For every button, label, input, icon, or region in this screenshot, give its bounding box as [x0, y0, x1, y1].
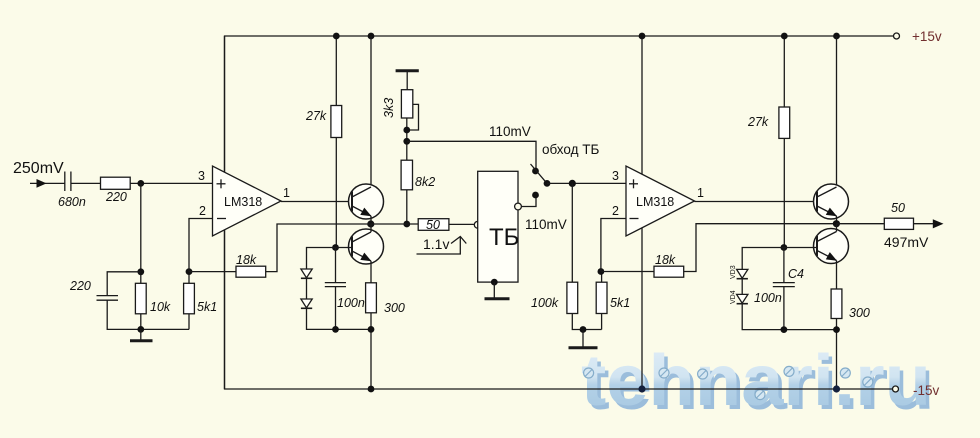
wire input shunt vertical	[140, 183, 142, 283]
wire op2 supply bottom	[641, 228, 643, 389]
svg-text:497mV: 497mV	[884, 234, 929, 250]
wire q4 base	[784, 247, 817, 249]
transistor Q1	[349, 184, 384, 219]
wire op2 pin2	[601, 219, 626, 272]
resistor R 27k first	[331, 106, 342, 138]
wire q4 collector to node	[836, 224, 838, 232]
svg-text:680n: 680n	[58, 195, 86, 209]
svg-text:tehnari.ru: tehnari.ru	[581, 341, 931, 421]
resistor R 300 second	[831, 289, 842, 319]
svg-text:27k: 27k	[305, 109, 327, 123]
svg-text:ТБ: ТБ	[489, 224, 519, 251]
wire 27k1 top	[335, 36, 337, 106]
svg-text:300: 300	[384, 301, 405, 315]
svg-text:+15v: +15v	[912, 29, 942, 44]
svg-text:-15v: -15v	[913, 383, 940, 398]
wire 27k1 bottom	[335, 138, 337, 248]
node junction input	[137, 180, 144, 187]
wire 18k1 left	[189, 271, 236, 273]
wire 5k1 bottom stub	[188, 314, 190, 330]
diode D2	[301, 299, 312, 308]
resistor R 50 output	[884, 218, 913, 229]
wire op2 pin3	[547, 182, 626, 184]
wire op2 supply top	[641, 36, 643, 174]
resistor R 220 series	[101, 177, 131, 189]
node junction rail bottom 2	[833, 385, 840, 392]
wire	[572, 314, 601, 330]
svg-text:VD4: VD4	[730, 290, 737, 304]
wire 27k2 top	[783, 36, 785, 107]
node junction C4 bottom	[781, 326, 788, 333]
svg-text:3: 3	[612, 169, 619, 183]
svg-text:100n: 100n	[754, 291, 782, 305]
wire	[130, 182, 212, 184]
ground gnd1	[130, 329, 153, 340]
wire output	[836, 223, 884, 225]
resistor R 50 first	[418, 219, 449, 231]
node junction op1 pin2	[186, 268, 193, 275]
wire op1 output	[281, 201, 352, 203]
node junction rail 27k1	[333, 33, 340, 40]
wire	[188, 272, 190, 284]
resistor R 5k1 second	[596, 282, 607, 313]
svg-text:LM318: LM318	[224, 195, 262, 209]
wire	[742, 304, 836, 330]
wire q2 emitter down	[370, 261, 372, 283]
svg-text:250mV: 250mV	[13, 160, 64, 177]
wire 100n top	[335, 248, 337, 283]
resistor R 100k	[567, 282, 578, 313]
resistor R 5k1 first	[184, 283, 195, 314]
node junction 3k3 wiper	[403, 127, 410, 134]
capacitor C 220 shunt	[97, 296, 119, 301]
diode VD4	[737, 294, 748, 303]
svg-text:1: 1	[697, 186, 704, 200]
resistor R 18k second	[654, 266, 684, 277]
wire	[449, 223, 474, 225]
wire -15v bottom rail	[225, 230, 893, 389]
node junction 110mV tap	[403, 138, 410, 145]
svg-text:5k1: 5k1	[197, 300, 217, 314]
resistor R 3k3 trimmer	[401, 90, 412, 118]
wire	[914, 223, 935, 225]
node junction emitters1	[367, 220, 374, 227]
node junction 300 bottom	[368, 326, 375, 333]
node junction rail 27k2	[781, 33, 788, 40]
wire 3k3 bottom	[406, 118, 408, 160]
wire diode chain 2	[742, 248, 784, 270]
wire q1 collector	[370, 36, 372, 187]
svg-text:110mV: 110mV	[489, 124, 531, 139]
wire q2 collector to node	[370, 224, 372, 232]
svg-text:100k: 100k	[531, 296, 559, 310]
wire TB out to switch	[521, 195, 536, 207]
wire op1 supply top	[224, 36, 226, 172]
svg-text:18k: 18k	[236, 253, 257, 267]
annotation 1.1v arrow	[417, 237, 467, 255]
wire diode chain 1	[307, 248, 336, 270]
resistor R 10k	[135, 283, 146, 314]
svg-text:300: 300	[849, 306, 870, 320]
wire +15v top rail	[225, 36, 894, 172]
wire 5k1 to pin2 node	[601, 272, 603, 283]
svg-text:220: 220	[105, 190, 127, 204]
svg-text:2: 2	[612, 204, 619, 218]
wire	[601, 314, 603, 330]
wire op2 output	[695, 201, 819, 203]
op-amp U1 LM318	[213, 166, 282, 236]
resistor R 300 first	[366, 283, 377, 313]
svg-text:1.1v: 1.1v	[423, 236, 449, 252]
wire to 50 ohm	[371, 223, 418, 225]
node junction rail bottom 1	[368, 386, 375, 393]
node junction op2 pin2	[598, 268, 605, 275]
wire q3 emitter to node	[836, 216, 838, 224]
svg-text:8k2: 8k2	[415, 175, 435, 189]
capacitor 100n first	[325, 283, 346, 287]
wire 100k top	[571, 183, 573, 282]
diode VD3	[737, 269, 748, 278]
wire 110mV line	[407, 141, 536, 171]
wire 27k2 bottom	[783, 138, 785, 247]
wire	[107, 300, 189, 329]
diode D1	[301, 269, 312, 278]
wire	[71, 182, 101, 184]
wire q2 base	[336, 247, 353, 249]
node switch throw lower	[532, 192, 539, 199]
resistor R 27k second	[779, 107, 790, 138]
wire 300-2 bottom	[836, 319, 838, 390]
svg-text:27k: 27k	[747, 115, 769, 129]
wire 8k2 bottom	[406, 190, 408, 224]
wire 3k3 wiper	[407, 104, 419, 130]
transistor Q3	[814, 184, 849, 219]
wire	[306, 278, 308, 299]
svg-text:3k3: 3k3	[382, 98, 396, 118]
node junction gnd2	[580, 326, 587, 333]
resistor R 18k first	[236, 266, 266, 277]
svg-text:VD3: VD3	[730, 265, 737, 279]
wire q4 emitter down	[836, 261, 838, 290]
svg-text:18k: 18k	[655, 253, 676, 267]
node junction emitters2	[833, 220, 840, 227]
transistor Q2	[349, 229, 384, 264]
capacitor 680n	[65, 172, 71, 192]
svg-text:1: 1	[283, 186, 290, 200]
wire q1 emitter to node	[370, 216, 372, 224]
svg-text:220: 220	[69, 279, 91, 293]
node switch common	[544, 180, 551, 187]
wire	[307, 308, 372, 329]
svg-text:обход ТБ: обход ТБ	[542, 142, 599, 157]
node input arrow	[37, 179, 47, 188]
capacitor C4 100n	[773, 283, 795, 287]
svg-text:50: 50	[891, 201, 905, 215]
wire C4 bottom	[783, 287, 785, 330]
wire 18k2 left	[601, 271, 654, 273]
power bar 3k3 top	[396, 71, 419, 90]
block TB	[478, 171, 518, 282]
resistor R 8k2	[401, 160, 412, 190]
wire 18k2 feedback	[684, 224, 837, 272]
node junction q4 base	[781, 244, 788, 251]
node junction rail op2	[639, 33, 646, 40]
node +15v terminal	[894, 33, 900, 39]
node junction q2 base	[332, 244, 339, 251]
svg-text:50: 50	[426, 218, 440, 232]
wire 100n bottom	[335, 287, 337, 330]
node TB output terminal	[515, 203, 522, 210]
node switch throw upper	[532, 168, 539, 175]
node junction 100k tap	[569, 180, 576, 187]
wire input	[30, 182, 65, 184]
switch blade	[531, 164, 548, 183]
svg-text:3: 3	[198, 169, 205, 183]
node junction 8k2 out	[403, 221, 410, 228]
op-amp U2 LM318	[626, 166, 695, 236]
svg-text:LM318: LM318	[636, 195, 674, 209]
node TB input terminal	[474, 221, 481, 228]
wire op1 pin2	[189, 219, 213, 272]
node junction 300-2 bottom	[833, 326, 840, 333]
svg-text:2: 2	[199, 204, 206, 218]
svg-text:C4: C4	[788, 267, 804, 281]
svg-text:5k1: 5k1	[610, 296, 630, 310]
node output arrow	[933, 219, 944, 228]
node junction rail q3	[833, 33, 840, 40]
wire 300 bottom	[370, 313, 372, 389]
wire 18k1 feedback	[266, 224, 371, 272]
transistor Q4	[814, 229, 849, 264]
node junction rail q1	[368, 33, 375, 40]
wire	[140, 314, 142, 330]
node junction gnd1	[137, 326, 144, 333]
wire q3 collector	[836, 36, 838, 187]
node junction 100n gnd	[332, 326, 339, 333]
svg-text:10k: 10k	[150, 300, 171, 314]
wire	[741, 279, 743, 295]
node junction rail bottom op2	[638, 385, 645, 392]
wire op1 supply bottom	[224, 230, 226, 389]
ground TB	[485, 282, 510, 299]
svg-text:100n: 100n	[337, 296, 365, 310]
wire C4 top	[783, 248, 785, 283]
node -15v terminal	[893, 386, 899, 392]
ground gnd2	[569, 330, 598, 348]
wire to cap 220	[107, 272, 141, 296]
svg-text:110mV: 110mV	[525, 217, 567, 232]
node junction cap branch	[137, 268, 144, 275]
node TB gnd junction	[491, 279, 498, 286]
